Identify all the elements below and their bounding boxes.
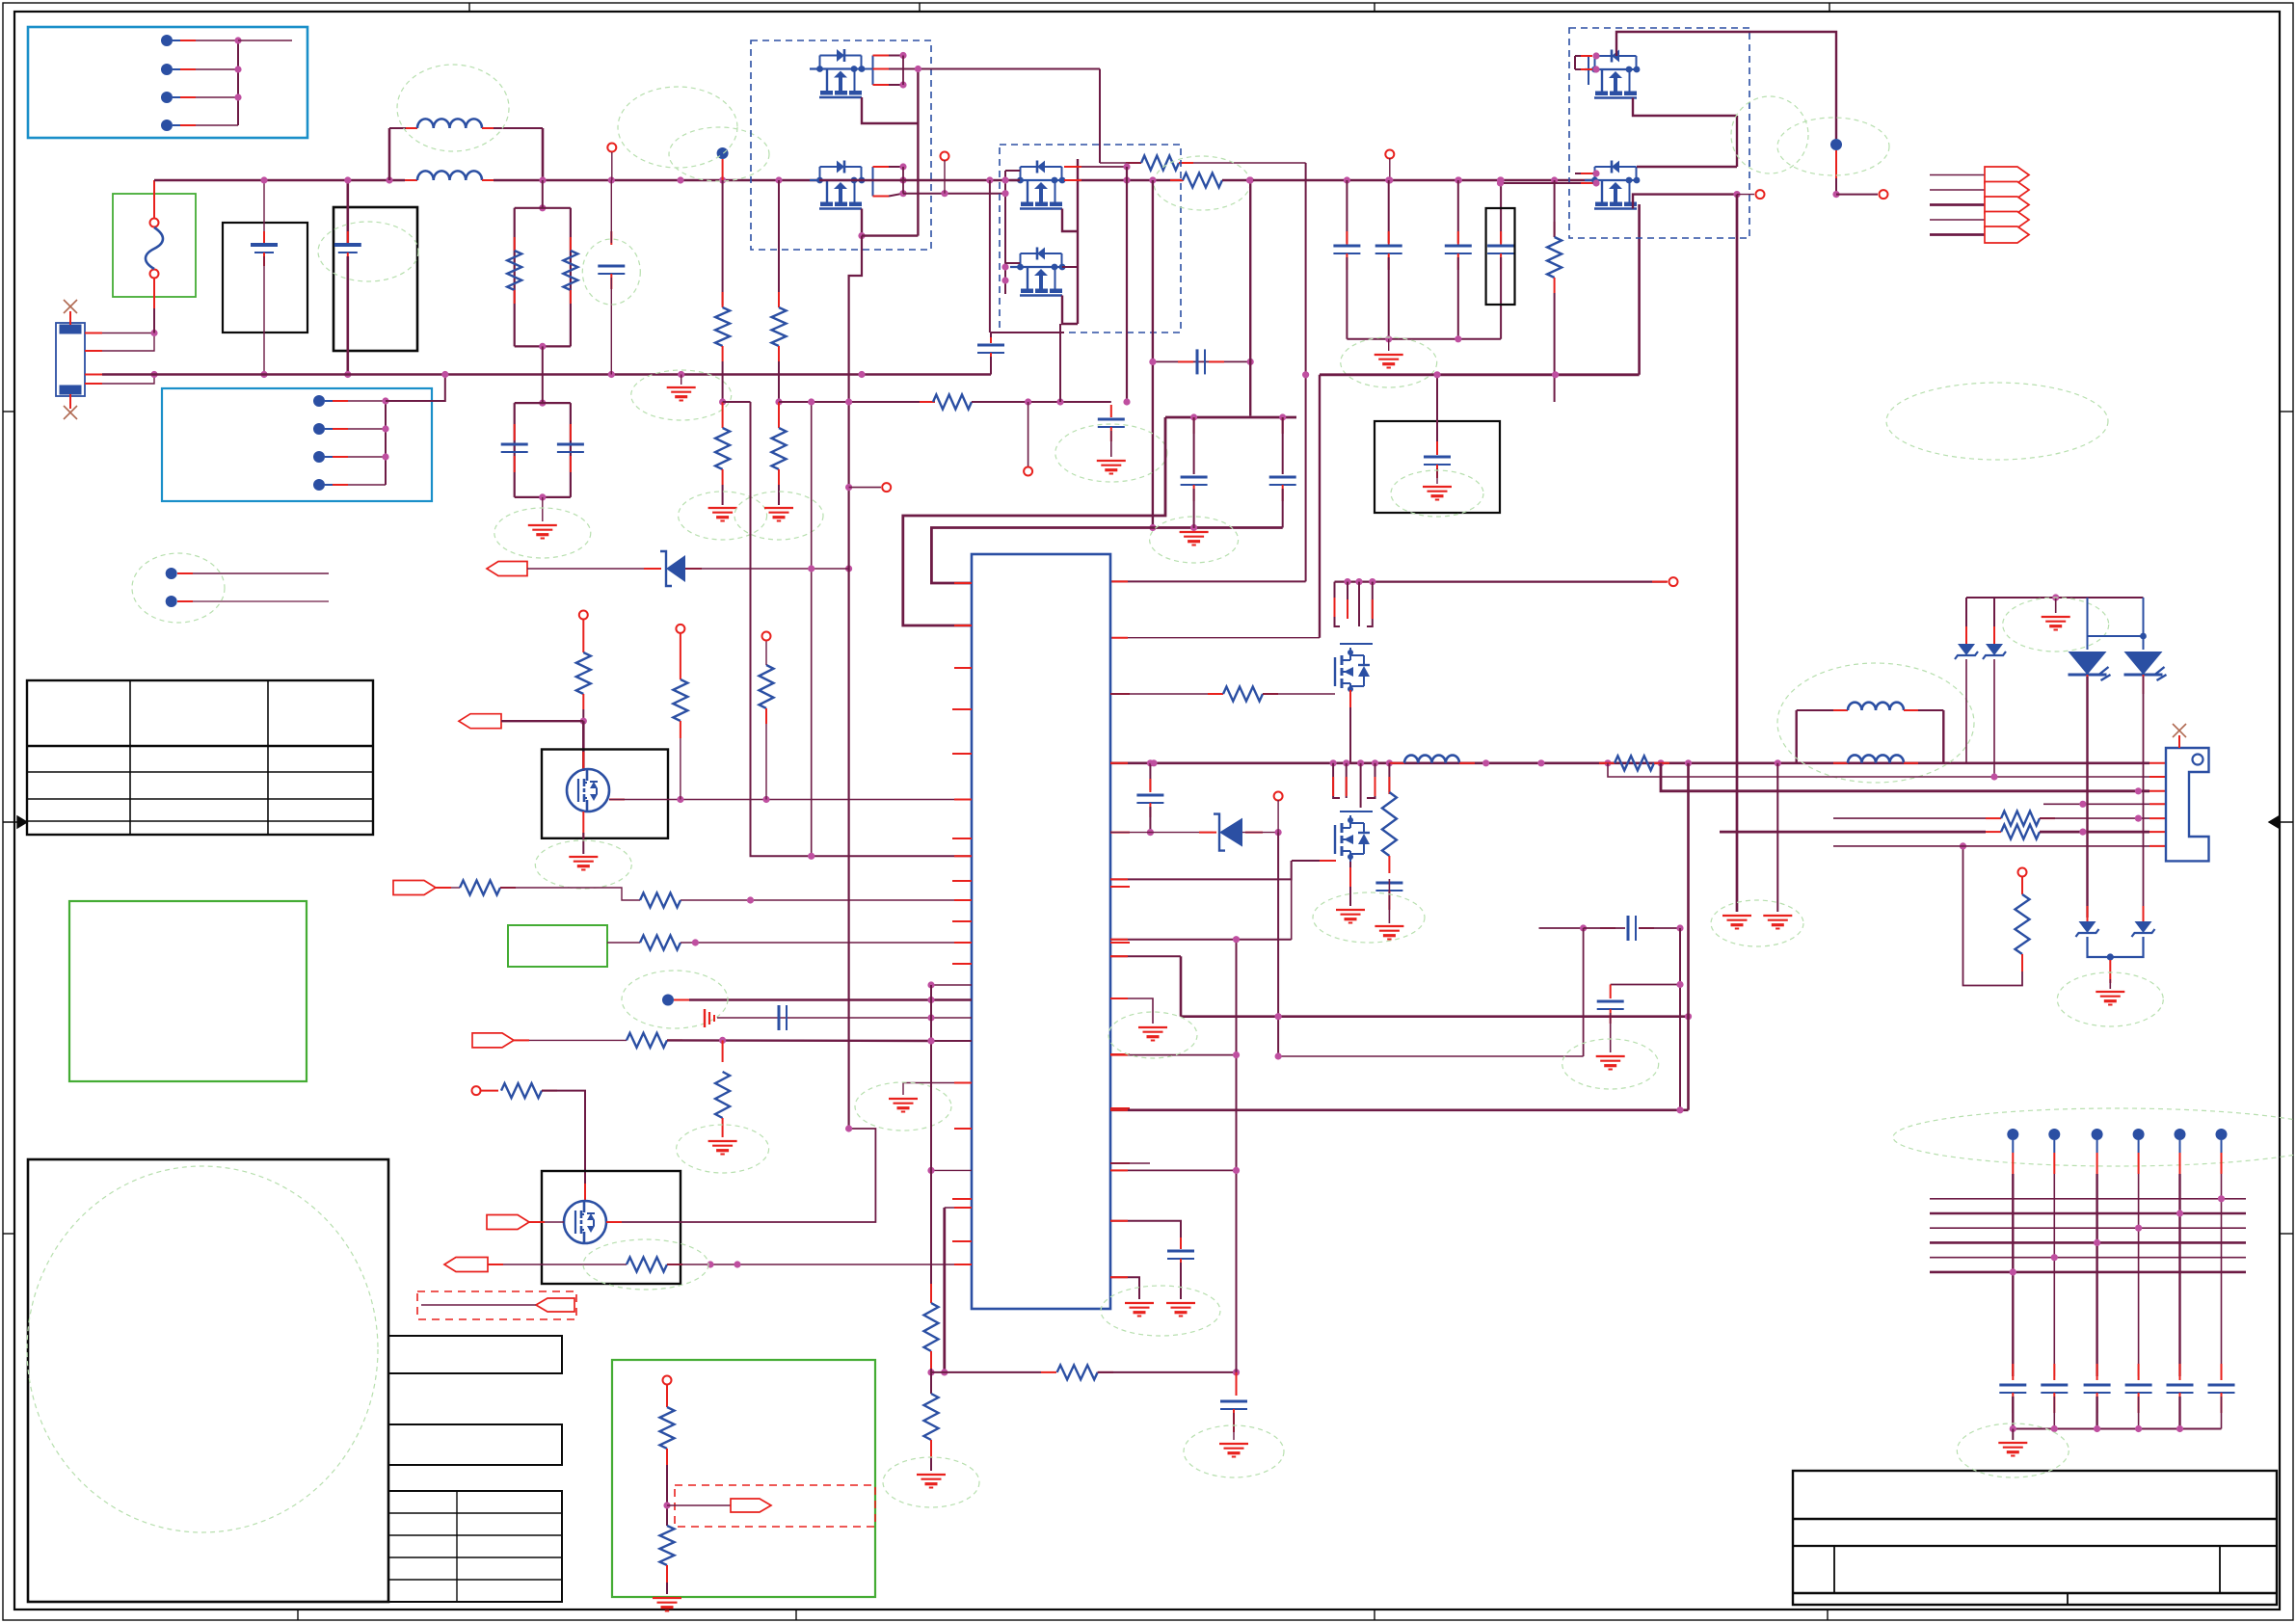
Q6m gate red <box>609 799 625 801</box>
wire Q2 down <box>849 236 862 1129</box>
junction CX2 neutral <box>344 371 351 378</box>
wire cells b <box>667 1039 931 1042</box>
wire v966 mid <box>930 1369 932 1394</box>
cell cap red t 6 <box>2221 1364 2223 1380</box>
wire Q6 drain lead <box>1637 166 1737 168</box>
wire flag wire 3 <box>1930 203 1985 206</box>
wire J1 out <box>238 40 292 41</box>
zener Z3 <box>2076 921 2099 937</box>
wire cap1330 stem b <box>1282 489 1284 528</box>
wire cell row 6 <box>1930 1271 2246 1274</box>
cap1330 red b <box>1282 485 1284 501</box>
wire J1 pin 1 <box>196 40 238 41</box>
wire chainB gnd stem <box>778 485 780 505</box>
pin stub U1 left pin y782 <box>952 753 972 755</box>
wire Q6 tp link <box>1737 194 1754 196</box>
wire J2 pin 1 <box>348 400 386 402</box>
resistor Rsnub <box>1141 156 1179 171</box>
wire b2 out <box>1078 179 1183 181</box>
pin649 red <box>954 625 972 626</box>
junction rail1151 d1743 <box>1676 1106 1683 1113</box>
wire TP1 wire <box>193 572 329 574</box>
wire caps bottom rail <box>1347 338 1501 340</box>
wire cell column 3 <box>2096 1174 2097 1376</box>
capacitor C9 <box>1136 795 1163 803</box>
pin934 red <box>954 899 972 901</box>
wire pin1123 link <box>903 1082 972 1084</box>
ring5 red <box>666 1385 668 1407</box>
wire cell column 5 <box>2178 1174 2180 1376</box>
junction Q1 bd1 <box>899 52 906 59</box>
bus417 red l <box>920 401 935 403</box>
pin stub J2 pin 3 <box>333 456 348 458</box>
pin605 red <box>954 582 972 584</box>
ch2 red tr <box>1904 709 1918 711</box>
transistor box Q7 <box>542 1171 681 1284</box>
net flag F4 <box>1985 212 2029 228</box>
pin1094 red <box>1110 1054 1128 1056</box>
thyristor SCR1 <box>2069 652 2111 680</box>
wire C634 bottom <box>610 278 612 375</box>
cell cap red t 5 <box>2179 1364 2181 1380</box>
R1612 red t <box>1554 222 1556 237</box>
choke bot red l <box>405 179 417 181</box>
wire rdiv stem bottom <box>542 346 544 403</box>
C14 red t <box>1610 985 1612 999</box>
wire zcl gnd stem <box>2055 598 2057 613</box>
wire Q5 bracket2 <box>1575 68 1589 70</box>
wire v966 gnd stem <box>930 1457 932 1471</box>
resistor Rb1 <box>924 1303 939 1351</box>
junction scr2 d821 <box>2135 787 2142 794</box>
junction cell grid 5 <box>2051 1254 2058 1261</box>
wire b2 cap stem <box>990 333 992 341</box>
highlight ellipse note box ellipse <box>27 1166 378 1532</box>
junction Q5 bd1 <box>1592 52 1599 59</box>
transistor Q3 <box>1010 161 1065 209</box>
wire R1612 bottom <box>1554 293 1556 402</box>
wire pin975 link <box>1110 939 1292 941</box>
wire J2 pin 2 <box>348 428 386 430</box>
junction sw d1441 <box>1386 176 1393 183</box>
wire C14 gnd stem <box>1610 1013 1612 1052</box>
wire qa r2 <box>1347 582 1348 617</box>
pin829 red <box>954 799 972 801</box>
wire row1424 a <box>931 1371 1041 1373</box>
wire flag wire 2 <box>1930 189 1985 191</box>
wire hs source line <box>903 193 1005 195</box>
wire flag wire 5 <box>1930 233 1985 236</box>
cell cap red b 4 <box>2138 1393 2140 1413</box>
junction qa d1 <box>1344 578 1350 585</box>
wire cell column b 2 <box>2053 1397 2055 1429</box>
wire zen2 stem <box>1993 598 1995 642</box>
junction bus433 d1330 <box>1279 413 1286 420</box>
junction C4 top <box>1385 176 1392 183</box>
wire Q2 src to bus <box>862 234 918 236</box>
resistor Rc1 <box>627 1033 667 1048</box>
net flag ACOK flag <box>444 1258 488 1272</box>
C9 red b <box>1149 803 1151 817</box>
capacitor C15 <box>1098 419 1125 427</box>
pin stub connector stub y877.9 <box>2149 845 2166 847</box>
fuse bottom lead <box>153 279 155 308</box>
terminal ring3 <box>762 632 771 641</box>
C1283 red b <box>1233 1409 1235 1432</box>
wire Q6 source out <box>1633 195 1737 209</box>
bus604 red r <box>1652 581 1668 583</box>
wire sw rail <box>1250 179 1596 181</box>
transistor Q6 <box>1585 161 1640 209</box>
Q1 br red3 <box>873 84 890 86</box>
title block column right <box>2219 1546 2221 1593</box>
wire qb r2 <box>1360 763 1362 808</box>
cell red lead 5 <box>2179 1153 2181 1174</box>
wire vert1340 <box>1291 861 1293 940</box>
row1312 red <box>667 1264 682 1265</box>
wire line rail <box>154 179 405 181</box>
highlight ellipse C1 ellipse <box>582 239 640 305</box>
node J2 pin 1 <box>313 395 325 407</box>
qb red1 <box>1346 777 1348 796</box>
wire pin661 link <box>1110 637 1320 639</box>
wire cell column 4 <box>2138 1174 2140 1376</box>
wire rail1151 <box>1110 1108 1689 1111</box>
wire cell column b 6 <box>2221 1397 2223 1429</box>
junction row1096 d <box>1275 1052 1282 1059</box>
rdiv red rb <box>570 290 572 304</box>
ground C15 gnd <box>1097 461 1126 474</box>
node J2 pin 3 <box>313 451 325 463</box>
row863 red r <box>1245 832 1263 834</box>
wire TP2 wire <box>193 600 329 602</box>
junction zcl d <box>2052 594 2059 600</box>
option box 2 <box>388 1424 562 1465</box>
J2 pin 4 blue lead <box>325 484 333 486</box>
wire optflag1 wire <box>421 1304 536 1306</box>
wire vert 1326 <box>1277 833 1279 1056</box>
ground C7 gnd <box>1423 487 1452 500</box>
resistor Rg4 <box>501 1083 542 1098</box>
resistor R417 <box>933 395 972 410</box>
revision table row 3 <box>27 820 373 822</box>
resistor Rp3 <box>640 936 681 950</box>
Q3 bk2 red <box>1064 179 1081 181</box>
wire flag1268 wire <box>545 1221 564 1223</box>
node J1 pin 1 <box>161 35 173 46</box>
option table row 1 <box>388 1512 562 1514</box>
wire R1612 top <box>1554 180 1556 237</box>
wire qb r0 <box>1333 763 1340 798</box>
junction row1312 d2 <box>734 1261 740 1267</box>
terminal bus604 tp <box>1669 577 1678 586</box>
transistor Q6m <box>567 769 609 811</box>
node TP2 <box>166 596 177 607</box>
node cell node 3 <box>2092 1129 2103 1140</box>
pin stub connector stub y806 <box>2149 776 2166 778</box>
transistor Q4 <box>1010 248 1065 296</box>
net flag CELLS flag <box>472 1033 514 1048</box>
pin stub U1 right pin y1094 <box>1110 1053 1130 1055</box>
wire vert 841 <box>811 402 813 856</box>
wire row821 <box>1661 763 2149 791</box>
chainB red4 <box>778 469 780 485</box>
wire qa r3 <box>1358 582 1360 626</box>
wire vert 1642 <box>1583 928 1585 1056</box>
wire C11 gnd stem <box>1180 1263 1182 1299</box>
IC U1 <box>972 554 1110 1309</box>
wire cell column b 5 <box>2178 1397 2180 1429</box>
fuse box <box>113 194 196 297</box>
terminal ring5 <box>663 1376 672 1385</box>
wire C9 stem b <box>1149 807 1151 833</box>
wire ring2 wire <box>680 738 681 800</box>
highlight ellipse Q6m gnd ellipse <box>535 840 631 889</box>
option table row 2 <box>388 1534 562 1536</box>
TP2 red <box>177 600 193 602</box>
net flag optflag1 <box>536 1298 574 1312</box>
pin stub U1 left pin y956 <box>952 920 972 922</box>
wire pin992 link <box>1110 955 1181 957</box>
junction J1 bus 101 <box>234 93 241 100</box>
node J2 pin 4 <box>313 479 325 491</box>
cell cap red b 6 <box>2221 1393 2223 1413</box>
pin1123 red <box>954 1082 972 1084</box>
fuse element <box>146 227 163 269</box>
pin stub connector stub y863.1 <box>2149 831 2166 833</box>
wire C634 top <box>610 180 612 243</box>
row849 red r <box>2040 817 2055 819</box>
wire C9 stem <box>1149 763 1151 790</box>
highlight ellipse gnd1280 ellipse <box>1184 1425 1284 1477</box>
bat nc lead <box>2178 735 2180 748</box>
wire bus792 <box>1110 761 2149 764</box>
wire pin912 link <box>1110 861 1292 879</box>
resistor Rp2 <box>640 893 681 908</box>
wire cell row 3 <box>1930 1227 2246 1229</box>
frame tick bottom 3 <box>1374 1610 1375 1620</box>
connector box J1 <box>28 27 307 138</box>
CX2 red b <box>347 253 349 266</box>
ch2 red br <box>1904 762 1918 764</box>
highlight ellipse rc2 gnd ellipse <box>677 1125 769 1173</box>
wire rv gnd stem <box>666 1583 668 1594</box>
title block row line 1 <box>1793 1518 2277 1521</box>
wire cells a <box>529 1039 627 1041</box>
C7 red b <box>1436 465 1438 478</box>
wire bus389 up <box>1638 204 1641 375</box>
chainB red3 <box>778 402 780 428</box>
ring6 red2 <box>2021 954 2023 971</box>
node cell node 6 <box>2216 1129 2228 1140</box>
ground vbat gnd <box>1722 916 1751 929</box>
junction cells d966 <box>927 1037 934 1044</box>
wire cell column 1 <box>2012 1174 2014 1376</box>
net flag CHG flag <box>459 714 501 729</box>
title block outline <box>1793 1471 2277 1605</box>
qb gate red <box>1320 860 1336 862</box>
wire J2 pin 4 <box>348 484 386 486</box>
option dashed box 2 <box>675 1485 875 1527</box>
junction neutral d634 <box>608 371 615 378</box>
highlight ellipse PE ellipse <box>631 370 732 420</box>
capacitor CY1 <box>501 444 528 452</box>
pin717 red <box>1110 693 1130 695</box>
wire rdiv left <box>514 208 516 347</box>
J2 pin 1 blue lead <box>325 400 333 402</box>
resistor Rrail <box>1183 173 1222 188</box>
wire vert 980 <box>943 1208 946 1372</box>
wire row978 a <box>607 942 640 944</box>
junction row375 d1196 <box>1149 359 1156 365</box>
C6 red b <box>1500 253 1502 270</box>
TP1 red <box>177 572 193 574</box>
C4 red t <box>1388 231 1390 245</box>
pin992 red <box>1110 955 1128 957</box>
cap1238 red b <box>1193 485 1195 501</box>
Q2 br blue1 <box>862 179 873 181</box>
wire ycap bottom <box>515 496 571 498</box>
wire box2 gate bus <box>1004 171 1006 294</box>
wire ycap right <box>570 403 572 497</box>
zen4 red <box>2143 906 2145 921</box>
Q5 br red1 <box>1581 55 1592 57</box>
wire cap1238 stem b <box>1193 489 1195 528</box>
junction neutral d706 <box>678 371 684 378</box>
capacitor C17 <box>1269 477 1296 485</box>
resistor Rb2 <box>924 1394 939 1440</box>
junction row963 d2 <box>1676 924 1683 931</box>
ground c10 gnd <box>1375 926 1403 940</box>
wire rdiv frame <box>515 207 571 209</box>
wire cap1238 stem <box>1193 417 1195 474</box>
frame tick top 2 <box>919 3 921 12</box>
wire C7 stem <box>1436 375 1438 453</box>
junction sw d1556 <box>1497 176 1504 183</box>
junction row1036 d966 <box>927 997 934 1003</box>
pin1036 red <box>1110 998 1128 999</box>
wire row878 <box>1833 845 2149 847</box>
inlet bottom lead <box>69 394 71 409</box>
pin603 red <box>1110 580 1128 582</box>
wire scr1 drop <box>2086 677 2088 918</box>
frame tick top 1 <box>468 3 470 12</box>
junction qa d3 <box>1369 578 1375 585</box>
wire neutral gnd stub <box>681 375 682 386</box>
junction Q3 bkd1 <box>1123 163 1130 170</box>
wire stair P1 <box>903 417 1165 625</box>
junction v980 d <box>941 1369 948 1375</box>
junction pin975 d <box>1233 936 1240 943</box>
highlight ellipse CX2 ellipse <box>318 222 418 281</box>
line tp lead <box>722 159 724 180</box>
wire choke2 left <box>1795 710 1797 763</box>
junction C3 top <box>1344 176 1350 183</box>
frame tick right 2 <box>2280 1233 2293 1235</box>
inductor L3b <box>1848 755 1904 762</box>
wire row1056 <box>717 1017 972 1019</box>
junction rail d1297 <box>1247 176 1254 183</box>
highlight ellipse C7 gnd ellipse <box>1391 470 1483 517</box>
terminal TP line <box>607 144 616 152</box>
row1424 red r <box>1098 1371 1113 1373</box>
cell blue lead 4 <box>2138 1140 2140 1153</box>
junction rv d <box>663 1502 670 1508</box>
junction cell grid 1 <box>2218 1195 2225 1202</box>
wire ycap frame top <box>515 402 571 404</box>
junction rail d563 <box>539 176 546 183</box>
junction stair d1238 <box>1190 524 1197 531</box>
wire row1036 <box>689 998 972 1000</box>
wire pin1036 link <box>1110 998 1153 1024</box>
transistor Q7 <box>564 1201 606 1243</box>
junction bus792 e <box>1372 759 1378 766</box>
junction row963 d1 <box>1580 924 1587 931</box>
wire pin603 link <box>1110 580 1306 582</box>
highlight ellipse TP ellipse <box>132 553 225 623</box>
C14 red b <box>1610 1009 1612 1024</box>
junction zen2 d <box>1990 773 1997 780</box>
transistor Q2 <box>810 161 865 209</box>
node TP3 <box>662 995 674 1006</box>
junction hs d980 <box>941 190 948 197</box>
zen3 red <box>2087 906 2089 921</box>
wire vert 966 <box>930 985 932 1284</box>
battery connector hole <box>2193 755 2203 765</box>
wire choke2 right <box>1942 710 1944 763</box>
wire Q5 source drop <box>1633 98 1737 117</box>
junction Q5 bd2 <box>1592 66 1599 72</box>
wire b2 g2 <box>1005 262 1020 264</box>
junction bus792 h <box>1537 759 1544 766</box>
highlight ellipse row1312 ellipse <box>583 1239 708 1290</box>
ground gnd1280 <box>1219 1444 1248 1457</box>
cell blue lead 2 <box>2053 1140 2055 1153</box>
resistor Rp1 <box>460 881 500 895</box>
ground C11 gnd <box>1166 1303 1195 1317</box>
junction rail d404 <box>386 176 392 183</box>
row863 red l <box>1199 832 1216 834</box>
capacitor Cc6 <box>2208 1385 2235 1393</box>
bus417 red r <box>972 401 987 403</box>
highlight ellipse ic gnd tr ellipse <box>1150 517 1239 563</box>
highlight ellipse top right ellipse <box>1886 383 2108 460</box>
pin stub U1 left pin y736 <box>952 708 972 710</box>
pin1312 red <box>954 1264 972 1265</box>
junction CX1 rail <box>260 176 267 183</box>
terminal row863 tp <box>1274 792 1283 801</box>
junction sw d1296 <box>1246 176 1253 183</box>
node J2 pin 2 <box>313 423 325 435</box>
node cell node 2 <box>2048 1129 2060 1140</box>
capacitor C16 <box>1181 477 1208 485</box>
wire J2 feed <box>386 375 445 402</box>
highlight ellipse chainA gnd ellipse <box>679 492 767 540</box>
resistor Rg3 <box>760 665 774 708</box>
wire vert 1743 <box>1679 928 1681 1110</box>
wire row863 a <box>1110 832 1213 834</box>
wire qa bracket <box>1340 643 1373 645</box>
wire Q1 bus link <box>902 56 904 86</box>
wire C4 bot <box>1388 257 1390 339</box>
AC inlet bottom bar <box>60 386 81 394</box>
resistor Rb3 <box>1057 1365 1098 1379</box>
cells red2 <box>667 1039 682 1041</box>
cap1330 red t <box>1282 417 1284 434</box>
wire cell bottom rail <box>2013 1428 2221 1430</box>
wire snubber drop <box>1099 69 1101 164</box>
junction gate d795 <box>762 796 769 803</box>
